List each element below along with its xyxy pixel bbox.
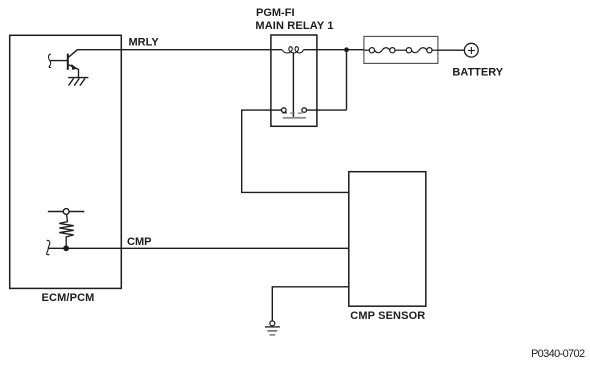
resistor (pull-up, zigzag) xyxy=(59,215,73,246)
fuse element 1 xyxy=(364,48,395,53)
ground (transistor emitter) xyxy=(68,78,88,86)
relay coil xyxy=(282,47,303,53)
wire relay to CMP sensor (left leg) xyxy=(242,110,349,192)
relay U1: PGM-FI MAIN RELAY 1 box xyxy=(271,35,317,126)
relay contact bar xyxy=(283,117,306,119)
svg-text:BATTERY: BATTERY xyxy=(452,67,503,79)
relay contact right xyxy=(302,108,307,113)
svg-text:CMP SENSOR: CMP SENSOR xyxy=(350,310,425,322)
svg-text:PGM-FI: PGM-FI xyxy=(256,7,295,19)
wire CMP xyxy=(48,247,349,249)
ECM/PCM box xyxy=(10,35,122,288)
wire break (transistor base) xyxy=(48,54,51,67)
wire relay coil to contact bar xyxy=(292,54,294,118)
svg-text:MAIN RELAY 1: MAIN RELAY 1 xyxy=(255,20,333,32)
svg-text:P0340-0702: P0340-0702 xyxy=(531,348,585,360)
battery terminal (+) xyxy=(464,43,478,57)
fuse box xyxy=(364,36,438,63)
CMP SENSOR box xyxy=(349,172,426,307)
junction dot (battery feed node) xyxy=(344,47,349,52)
transistor xyxy=(50,50,78,78)
junction dot (CMP node) xyxy=(63,245,69,251)
svg-text:CMP: CMP xyxy=(127,236,151,248)
svg-text:MRLY: MRLY xyxy=(129,37,160,49)
relay armature dashes xyxy=(290,112,302,114)
svg-text:ECM/PCM: ECM/PCM xyxy=(42,292,95,304)
wire relay right contact out xyxy=(307,109,347,111)
ground (sensor, terminal circle + bars) xyxy=(265,321,280,335)
wire fuse to battery xyxy=(438,49,465,51)
wire MRLY (collector to relay to fuse) xyxy=(77,49,282,51)
terminal circle (pull-up top) xyxy=(48,209,85,215)
fuse element 2 xyxy=(395,48,438,53)
wire sensor ground xyxy=(272,287,349,321)
wire battery feed down xyxy=(346,50,348,110)
wire break (CMP left) xyxy=(47,240,50,254)
relay contact left xyxy=(282,108,288,113)
wire relay left contact out xyxy=(271,109,282,111)
